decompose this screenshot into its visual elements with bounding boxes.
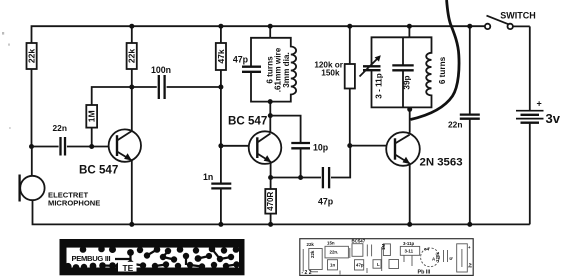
node N (rail tank1)	[268, 24, 273, 29]
switch SW1	[485, 16, 530, 29]
svg-text:15n: 15n	[327, 240, 335, 245]
transistor Q2 BC547	[249, 131, 282, 164]
wire tank2 top stub	[408, 26, 410, 37]
svg-text:+: +	[537, 99, 542, 109]
svg-text:22k: 22k	[307, 242, 315, 247]
resistor 22k R1	[27, 43, 37, 69]
node J (collector 10p tee)	[268, 113, 273, 118]
node I (1n ground)	[218, 222, 223, 227]
wire bottom rail	[33, 200, 530, 224]
svg-text:120k: 120k	[435, 252, 440, 262]
scan speck	[9, 127, 11, 129]
svg-text:1M: 1M	[87, 110, 97, 122]
svg-text:SWITCH: SWITCH	[500, 11, 536, 21]
svg-text:q: q	[448, 257, 453, 260]
resistor 1M R2	[86, 87, 132, 147]
wire to microphone	[31, 147, 33, 177]
svg-text:22n: 22n	[53, 123, 67, 133]
capacitor 22n C1	[32, 137, 110, 156]
wire Q3 emitter	[409, 164, 411, 224]
svg-text:47p: 47p	[233, 55, 249, 65]
node D (emitter Q1 ground)	[129, 222, 134, 227]
svg-text:47p: 47p	[356, 262, 364, 267]
wire Q2 collector	[269, 102, 271, 132]
wire Q3 collector	[409, 107, 411, 132]
svg-text:1M: 1M	[381, 244, 386, 250]
node S (emitter Q3 ground)	[407, 222, 412, 227]
label L1 (6 turns .61mm wire 3mm dia.)	[265, 47, 291, 92]
svg-text:3v: 3v	[468, 263, 473, 268]
svg-text:47k: 47k	[216, 49, 226, 64]
node V (22n ground)	[467, 222, 472, 227]
svg-text:o4: o4	[424, 247, 430, 252]
node B (1M base junction)	[89, 144, 94, 149]
transistor Q3 2N3563	[386, 132, 420, 166]
label TE	[118, 262, 137, 272]
svg-text:TE: TE	[123, 263, 134, 273]
node O (tank1 bottom)	[268, 99, 273, 104]
node F (rail R4)	[218, 24, 223, 29]
svg-text:3 - 11p: 3 - 11p	[374, 73, 383, 99]
svg-text:3-11p: 3-11p	[403, 241, 415, 246]
wire tank1 top stub	[269, 26, 271, 38]
svg-text:100n: 100n	[151, 65, 171, 75]
inductor L1 6 turns	[270, 38, 296, 102]
wire R4 to base Q2	[220, 87, 222, 183]
svg-text:1n: 1n	[203, 172, 213, 182]
node R (tank2 bottom)	[407, 107, 412, 112]
capacitor 47p C6 (tank1 branch)	[242, 38, 270, 102]
svg-text:470R: 470R	[266, 192, 275, 211]
svg-text:PEMBUG III: PEMBUG III	[72, 254, 111, 263]
node E (rail R3)	[129, 24, 134, 29]
svg-text:150k: 150k	[321, 69, 340, 78]
node P (rail 120k)	[347, 24, 352, 29]
svg-text:39p: 39p	[402, 75, 411, 89]
svg-text:+: +	[468, 245, 471, 250]
svg-text:22n.: 22n.	[330, 249, 339, 254]
svg-text:3v: 3v	[546, 111, 561, 126]
capacitor 10p C4	[270, 116, 310, 178]
resistor 47k R4	[216, 26, 226, 87]
resistor 22k R3	[127, 26, 137, 87]
node U (rail 22n)	[467, 24, 472, 29]
svg-text:22k: 22k	[310, 250, 315, 258]
svg-text:22n: 22n	[448, 120, 462, 130]
transistor Q1 BC547	[109, 129, 141, 161]
svg-text:MICROPHONE: MICROPHONE	[48, 199, 100, 208]
svg-text:1n: 1n	[330, 262, 335, 267]
wire Q1 collector	[131, 87, 133, 131]
PCB copper pattern PERBUG III	[60, 239, 245, 275]
svg-text:6 turns: 6 turns	[438, 56, 447, 84]
svg-text:L: L	[377, 262, 380, 267]
capacitor 100n C2	[132, 75, 221, 99]
node Q (base Q3 junction)	[347, 143, 352, 148]
resistor 470R R5	[265, 189, 276, 224]
scan speck	[8, 44, 10, 46]
wire base Q3	[350, 145, 387, 147]
capacitor 1n C3	[211, 184, 231, 225]
battery B1 3v	[516, 26, 544, 224]
node K (emitter 470R junction)	[268, 175, 273, 180]
svg-text:BC 547: BC 547	[79, 164, 118, 177]
scan speck	[2, 32, 4, 35]
trimmer capacitor 3-11p CV1	[360, 37, 410, 107]
svg-text:22k: 22k	[27, 49, 37, 64]
node M (10p/47p junction)	[298, 175, 303, 180]
node C (collector Q1)	[129, 85, 134, 90]
svg-text:Pb III: Pb III	[418, 270, 431, 276]
svg-text:3-11: 3-11	[405, 249, 414, 254]
svg-text:BC 547: BC 547	[228, 115, 267, 128]
electret microphone MIC1	[20, 175, 45, 202]
svg-text:47p: 47p	[318, 197, 334, 207]
svg-text:BC547: BC547	[352, 239, 366, 244]
antenna wire	[411, 0, 460, 120]
capacitor 47p C5	[323, 146, 350, 189]
capacitor 39p C7	[392, 37, 413, 107]
svg-text:3mm dia.: 3mm dia.	[282, 52, 291, 88]
resistor 120k R6	[345, 26, 355, 145]
svg-text:22k: 22k	[127, 49, 137, 64]
node G (R4/100n junction)	[218, 85, 223, 90]
svg-text:- 2 2: - 2 2	[302, 270, 312, 276]
svg-text:2N 3563: 2N 3563	[420, 157, 463, 169]
wire emitter node to 47p	[271, 177, 321, 179]
wire base Q2	[221, 145, 249, 147]
node T (rail tank2)	[407, 24, 412, 29]
inductor L2 6 turns	[409, 37, 431, 107]
component overlay PB III	[300, 239, 473, 276]
svg-text:10p: 10p	[313, 143, 329, 153]
wire Q2 emitter	[270, 162, 272, 189]
wire Q1 emitter	[131, 161, 133, 225]
capacitor 22n C8	[460, 26, 480, 224]
node H (base Q2 junction)	[218, 143, 223, 148]
node A (junction mic/22n)	[29, 144, 34, 149]
wire top rail	[32, 26, 485, 146]
node L (470R ground)	[268, 222, 273, 227]
